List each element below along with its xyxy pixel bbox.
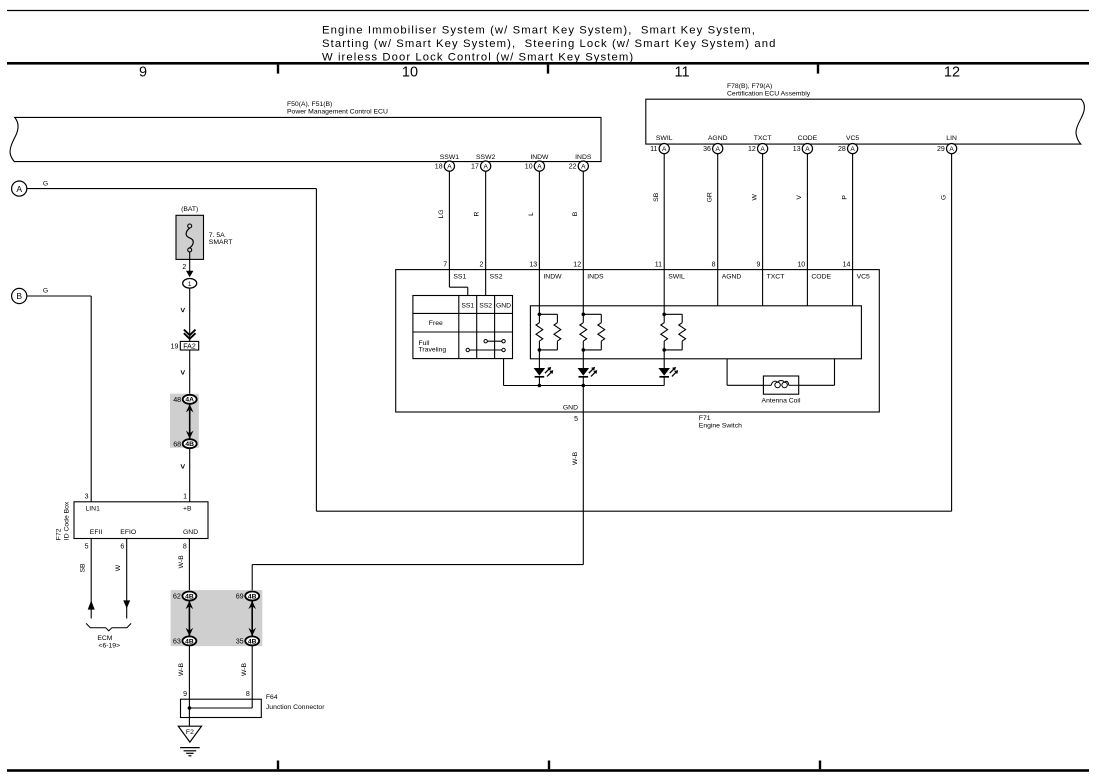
svg-text:<6-19>: <6-19> xyxy=(99,642,121,649)
svg-text:ID Code Box: ID Code Box xyxy=(64,501,71,540)
svg-text:2: 2 xyxy=(480,262,484,269)
svg-text:INDW: INDW xyxy=(543,273,562,280)
svg-text:14: 14 xyxy=(843,262,851,269)
svg-text:11: 11 xyxy=(655,262,662,269)
svg-text:Certification ECU Assembly: Certification ECU Assembly xyxy=(727,90,811,97)
svg-text:SS2: SS2 xyxy=(490,273,503,280)
svg-text:V: V xyxy=(796,195,803,200)
svg-text:4B: 4B xyxy=(185,441,194,448)
svg-text:22: 22 xyxy=(569,164,577,171)
svg-text:TXCT: TXCT xyxy=(767,273,785,280)
svg-text:A: A xyxy=(537,164,542,171)
svg-text:F64: F64 xyxy=(266,694,278,701)
svg-text:SS2: SS2 xyxy=(479,302,492,309)
svg-text:SWIL: SWIL xyxy=(668,273,685,280)
svg-text:19: 19 xyxy=(171,344,179,351)
svg-text:4B: 4B xyxy=(248,593,257,600)
svg-text:11: 11 xyxy=(674,65,689,81)
svg-text:Engine Switch: Engine Switch xyxy=(699,422,742,429)
svg-text:EFII: EFII xyxy=(90,529,103,536)
svg-text:Traveling: Traveling xyxy=(419,347,447,354)
svg-text:LIN: LIN xyxy=(946,135,957,142)
svg-text:10: 10 xyxy=(525,164,533,171)
svg-text:GR: GR xyxy=(706,192,713,202)
svg-text:SSW2: SSW2 xyxy=(476,154,495,161)
svg-text:62: 62 xyxy=(173,592,181,601)
svg-text:CODE: CODE xyxy=(798,135,818,142)
svg-text:9: 9 xyxy=(756,262,760,269)
svg-text:A: A xyxy=(760,146,765,153)
svg-text:(BAT): (BAT) xyxy=(181,206,198,213)
svg-text:7. 5A: 7. 5A xyxy=(209,232,225,239)
svg-text:F78(B), F79(A): F78(B), F79(A) xyxy=(727,83,772,90)
svg-text:A: A xyxy=(805,146,810,153)
svg-text:9: 9 xyxy=(139,65,147,81)
svg-text:ECM: ECM xyxy=(97,635,112,642)
svg-text:INDS: INDS xyxy=(587,273,604,280)
svg-text:35: 35 xyxy=(236,637,244,646)
svg-text:>: > xyxy=(178,370,188,375)
svg-text:F2: F2 xyxy=(186,729,194,736)
svg-text:P: P xyxy=(841,195,848,200)
svg-text:Junction Connector: Junction Connector xyxy=(266,704,325,711)
svg-text:Power Management Control ECU: Power Management Control ECU xyxy=(287,108,388,115)
svg-text:G: G xyxy=(940,195,947,200)
svg-text:18: 18 xyxy=(435,164,443,171)
svg-text:69: 69 xyxy=(236,592,244,601)
svg-text:SS1: SS1 xyxy=(461,302,474,309)
svg-text:SB: SB xyxy=(80,563,87,573)
svg-text:7: 7 xyxy=(443,262,447,269)
svg-text:68: 68 xyxy=(173,439,181,448)
svg-text:SMART: SMART xyxy=(209,239,233,246)
svg-text:VC5: VC5 xyxy=(857,273,870,280)
svg-text:SS1: SS1 xyxy=(453,273,466,280)
svg-text:63: 63 xyxy=(173,637,181,646)
svg-text:SWIL: SWIL xyxy=(656,135,673,142)
svg-text:EFIO: EFIO xyxy=(120,529,136,536)
svg-text:36: 36 xyxy=(703,146,711,153)
svg-text:Starting (w/ Smart Key System): Starting (w/ Smart Key System), Steering… xyxy=(322,38,776,50)
svg-text:Free: Free xyxy=(429,320,443,327)
svg-text:12: 12 xyxy=(944,65,960,81)
svg-text:12: 12 xyxy=(573,262,581,269)
svg-text:48: 48 xyxy=(173,395,181,404)
svg-text:28: 28 xyxy=(838,146,846,153)
svg-text:13: 13 xyxy=(529,262,537,269)
svg-text:W ireless Door Lock Control (w: W ireless Door Lock Control (w/ Smart Ke… xyxy=(322,52,634,64)
svg-text:1: 1 xyxy=(183,493,187,500)
svg-text:Engine Immobiliser System (w/: Engine Immobiliser System (w/ Smart Key … xyxy=(322,25,756,37)
svg-text:FA2: FA2 xyxy=(183,343,196,350)
svg-text:1: 1 xyxy=(188,281,192,288)
svg-text:W-B: W-B xyxy=(178,662,185,676)
svg-text:A: A xyxy=(16,184,22,194)
svg-text:A: A xyxy=(447,164,452,171)
svg-text:W-B: W-B xyxy=(178,555,185,569)
svg-text:11: 11 xyxy=(650,146,657,153)
svg-text:AGND: AGND xyxy=(708,135,728,142)
svg-text:INDS: INDS xyxy=(575,154,592,161)
svg-text:W: W xyxy=(751,194,758,201)
svg-text:F71: F71 xyxy=(699,415,711,422)
svg-text:>: > xyxy=(178,464,188,469)
svg-text:6: 6 xyxy=(120,543,124,550)
svg-text:Antenna Coil: Antenna Coil xyxy=(762,398,801,405)
svg-text:A: A xyxy=(715,146,720,153)
svg-text:13: 13 xyxy=(793,146,801,153)
svg-text:G: G xyxy=(43,180,48,187)
svg-text:F72: F72 xyxy=(56,528,63,540)
svg-text:4A: 4A xyxy=(185,397,194,404)
svg-text:29: 29 xyxy=(937,146,945,153)
svg-text:+B: +B xyxy=(183,505,192,512)
svg-text:A: A xyxy=(949,146,954,153)
svg-text:9: 9 xyxy=(183,691,187,698)
svg-text:>: > xyxy=(178,308,188,313)
svg-text:8: 8 xyxy=(183,543,187,550)
svg-text:B: B xyxy=(16,291,22,301)
svg-text:AGND: AGND xyxy=(722,273,742,280)
svg-text:INDW: INDW xyxy=(530,154,549,161)
svg-text:CODE: CODE xyxy=(811,273,831,280)
svg-text:LG: LG xyxy=(438,209,445,218)
svg-text:B: B xyxy=(572,211,579,216)
svg-text:R: R xyxy=(474,211,481,216)
svg-text:4B: 4B xyxy=(185,638,194,645)
svg-text:8: 8 xyxy=(246,691,250,698)
svg-text:10: 10 xyxy=(797,262,805,269)
svg-text:W-B: W-B xyxy=(241,662,248,676)
svg-text:GND: GND xyxy=(183,529,198,536)
svg-text:G: G xyxy=(43,288,48,295)
svg-text:4B: 4B xyxy=(185,593,194,600)
svg-text:W-B: W-B xyxy=(572,451,579,465)
svg-text:5: 5 xyxy=(574,416,578,423)
svg-text:VC5: VC5 xyxy=(846,135,859,142)
svg-text:A: A xyxy=(483,164,488,171)
svg-text:8: 8 xyxy=(712,262,716,269)
svg-text:L: L xyxy=(528,212,535,216)
svg-text:5: 5 xyxy=(85,543,89,550)
svg-text:TXCT: TXCT xyxy=(754,135,772,142)
svg-text:3: 3 xyxy=(85,493,89,500)
svg-text:A: A xyxy=(662,146,667,153)
svg-text:10: 10 xyxy=(402,65,418,81)
svg-text:A: A xyxy=(581,164,586,171)
svg-text:GND: GND xyxy=(496,302,511,309)
svg-text:2: 2 xyxy=(182,264,186,271)
svg-text:SSW1: SSW1 xyxy=(440,154,459,161)
svg-text:12: 12 xyxy=(748,146,756,153)
svg-text:GND: GND xyxy=(563,404,578,411)
svg-text:F50(A), F51(B): F50(A), F51(B) xyxy=(287,101,332,108)
svg-text:17: 17 xyxy=(471,164,479,171)
svg-text:A: A xyxy=(850,146,855,153)
svg-text:SB: SB xyxy=(653,192,660,202)
svg-text:4B: 4B xyxy=(248,638,257,645)
svg-text:W: W xyxy=(115,564,122,571)
svg-text:LIN1: LIN1 xyxy=(86,505,101,512)
